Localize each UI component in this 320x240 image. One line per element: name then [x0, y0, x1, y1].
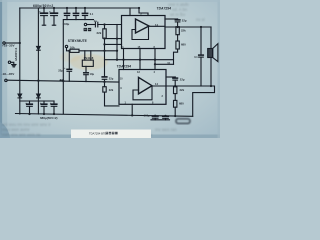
svg-text:22µ: 22µ [180, 77, 185, 81]
svg-text:680: 680 [181, 42, 186, 46]
svg-text:22k: 22k [97, 31, 102, 35]
svg-text:10k: 10k [70, 45, 75, 49]
svg-text:nvm env wnr vem ne: nvm env wnr vem ne [2, 132, 41, 137]
svg-text:nv ei: nv ei [196, 17, 205, 22]
svg-text:1µ: 1µ [94, 19, 98, 23]
svg-text:22µ: 22µ [109, 76, 114, 80]
svg-text:-18~-35V: -18~-35V [2, 72, 16, 76]
svg-text:0.1: 0.1 [90, 13, 94, 16]
svg-text:+18~35V: +18~35V [2, 44, 15, 48]
svg-text:TDA7294 BTL: TDA7294 BTL [89, 132, 107, 136]
svg-text:14: 14 [155, 82, 158, 86]
svg-text:100µ: 100µ [144, 113, 150, 117]
svg-text:22µ: 22µ [182, 18, 187, 22]
svg-text:mv wen ran: mv wen ran [155, 127, 177, 132]
svg-text:680µ/50V×2: 680µ/50V×2 [33, 4, 53, 8]
svg-text:100µ: 100µ [63, 22, 70, 26]
svg-text:+: + [39, 10, 41, 14]
svg-text:1N4148: 1N4148 [84, 56, 94, 60]
svg-text:4A400V×4: 4A400V×4 [14, 47, 18, 61]
svg-text:TDA7294: TDA7294 [117, 64, 132, 68]
svg-text:14: 14 [155, 23, 158, 27]
svg-text:22µ: 22µ [58, 69, 63, 73]
svg-text:22k: 22k [180, 88, 185, 92]
svg-text:STBY/MUTE: STBY/MUTE [68, 39, 88, 43]
svg-text:TDA7294: TDA7294 [157, 6, 172, 10]
svg-text:22k: 22k [109, 88, 114, 92]
svg-text:680µ(50V×2): 680µ(50V×2) [40, 116, 58, 120]
svg-text:wt m lbv: wt m lbv [170, 12, 186, 17]
svg-text:0.1: 0.1 [194, 56, 198, 59]
svg-text:22k: 22k [181, 28, 186, 32]
svg-text:+: + [49, 10, 51, 14]
svg-text:680: 680 [179, 102, 184, 106]
svg-text:10µ: 10µ [90, 72, 95, 76]
